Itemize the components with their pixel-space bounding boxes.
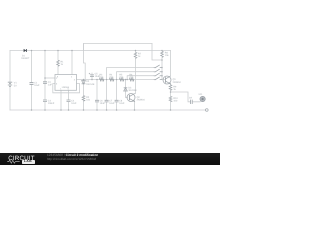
capacitor C5 polarized	[89, 73, 94, 77]
resistor R9	[169, 85, 173, 91]
wire vertical C2/C3 branch	[44, 51, 46, 111]
footer title text	[47, 153, 98, 157]
svg-text:R7: R7	[138, 53, 142, 56]
svg-text:R4: R4	[109, 74, 113, 77]
node rail end terminal	[206, 109, 209, 112]
diode D3	[124, 88, 128, 91]
svg-text:C4: C4	[71, 99, 75, 102]
svg-text:1N4148: 1N4148	[128, 89, 137, 92]
svg-text:10nF: 10nF	[109, 102, 115, 105]
CircuitLab logo	[8, 156, 35, 162]
wire C7 drop	[106, 80, 108, 111]
transistor Q2	[127, 94, 135, 102]
wire bottom rail	[10, 109, 206, 111]
wire speaker stub	[200, 100, 201, 103]
wire U1 pin1 ground	[60, 90, 62, 110]
wire top rail	[10, 50, 171, 52]
svg-text:5V: 5V	[14, 84, 17, 87]
svg-text:C2: C2	[48, 81, 52, 84]
footer bar	[0, 153, 220, 166]
battery V1	[8, 82, 12, 86]
svg-text:R5: R5	[119, 74, 123, 77]
wire vertical C1 branch	[31, 51, 33, 111]
capacitor C2	[43, 82, 47, 84]
svg-text:C1: C1	[34, 82, 38, 85]
svg-text:R6: R6	[129, 74, 133, 77]
svg-text:1k: 1k	[138, 55, 141, 58]
svg-text:R9: R9	[173, 85, 177, 88]
svg-text:10k: 10k	[165, 54, 170, 57]
wire U1 pin5 branch	[68, 90, 70, 110]
svg-text:LM555: LM555	[62, 86, 70, 89]
capacitor C9	[191, 100, 193, 104]
svg-text:D3: D3	[128, 87, 132, 90]
wire Q1 emitter chain	[170, 84, 172, 110]
op-amp U1 555 timer box	[55, 75, 77, 91]
capacitor C8	[115, 100, 119, 102]
svg-text:1uF: 1uF	[48, 84, 53, 87]
node junction dots	[31, 50, 172, 111]
svg-text:C8: C8	[119, 100, 123, 103]
wire Q1 collector feed	[170, 51, 172, 77]
resistor R10	[169, 96, 173, 102]
svg-text:C3: C3	[48, 99, 52, 102]
svg-text:10k: 10k	[86, 98, 91, 101]
wire U1 pin4 to rail	[71, 51, 73, 75]
svg-text:C9: C9	[189, 97, 193, 100]
diode D2	[82, 81, 86, 84]
svg-text:10nF: 10nF	[100, 102, 106, 105]
svg-text:Q1: Q1	[173, 78, 177, 81]
svg-text:1k: 1k	[61, 63, 64, 66]
svg-text:R1: R1	[61, 61, 65, 64]
resistor R3	[99, 78, 104, 81]
svg-text:SP1: SP1	[198, 93, 203, 96]
resistor R8	[160, 51, 164, 57]
svg-text:Q2: Q2	[137, 96, 141, 99]
svg-text:1N4148: 1N4148	[86, 83, 95, 86]
switch SW1	[154, 65, 162, 68]
logo waveform	[7, 160, 20, 163]
wire R1 branch to U1 pin8	[57, 51, 59, 75]
svg-text:10nF: 10nF	[71, 102, 77, 105]
resistor R4	[109, 78, 114, 81]
switch SW4	[154, 77, 162, 80]
svg-text:R10: R10	[173, 97, 178, 100]
svg-text:10nF: 10nF	[119, 102, 125, 105]
capacitor C1	[30, 83, 34, 85]
svg-text:C6: C6	[100, 100, 104, 103]
svg-text:1k: 1k	[173, 88, 176, 91]
wire Q2 emitter link	[134, 100, 136, 102]
capacitor C6	[95, 100, 99, 102]
speaker SP1	[200, 96, 205, 101]
svg-text:100nF: 100nF	[48, 102, 55, 105]
svg-text:C7: C7	[109, 100, 113, 103]
resistor R7	[134, 52, 138, 58]
wire U1 pin6 wrap	[53, 84, 80, 93]
wire C8 drop	[116, 80, 118, 111]
svg-text:C5: C5	[95, 73, 99, 76]
svg-text:10uF: 10uF	[34, 84, 40, 87]
wire R7 collector feed	[135, 51, 137, 94]
wire tap to SW1	[107, 68, 154, 80]
wire D2 R2 chain	[84, 44, 86, 111]
wire upper rail	[84, 44, 153, 51]
svg-text:R2: R2	[86, 96, 90, 99]
wire C5 stub	[91, 73, 93, 80]
wire output row	[77, 79, 154, 81]
svg-text:2N3904: 2N3904	[137, 98, 146, 101]
svg-text:2N3904: 2N3904	[173, 81, 182, 84]
resistor R1	[56, 60, 60, 66]
capacitor C4	[67, 100, 71, 102]
wire Q2 collector link	[135, 93, 136, 95]
wire tap to SW2	[117, 72, 154, 80]
wire upper rail drop to bus	[152, 44, 162, 61]
wire D3 base riser	[126, 80, 128, 98]
capacitor C3	[43, 100, 47, 102]
wire left battery rail	[9, 51, 11, 111]
resistor R2	[82, 96, 86, 102]
capacitor C7	[105, 100, 109, 102]
wire switch bus	[162, 58, 165, 80]
footer url text	[47, 157, 96, 161]
svg-text:1N4007: 1N4007	[21, 57, 30, 60]
wire tap to SW3	[127, 76, 154, 80]
svg-text:R8: R8	[165, 52, 169, 55]
svg-text:R3: R3	[99, 74, 103, 77]
logo LAB badge	[22, 160, 35, 164]
svg-text:100: 100	[173, 100, 178, 103]
wire speaker branch	[171, 92, 201, 102]
resistor R5	[119, 78, 124, 81]
diode D1	[24, 49, 27, 52]
wire C6 drop	[96, 80, 98, 111]
switch SW2	[154, 69, 162, 72]
transistor Q1	[163, 76, 171, 84]
svg-text:D1: D1	[22, 54, 26, 57]
wire Q2 emitter to rail	[134, 102, 136, 111]
switch SW3	[154, 73, 162, 76]
resistor R6	[129, 78, 134, 81]
svg-text:D2: D2	[86, 80, 90, 83]
wire U1 pin2 left	[45, 77, 55, 79]
